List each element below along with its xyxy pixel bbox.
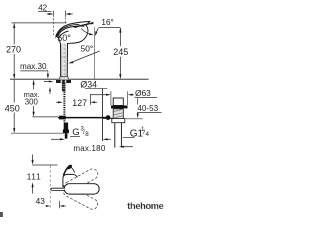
dimension 43 (49, 166, 51, 188)
hose connection level line (450 datum) (11, 132, 64, 134)
G 3/8 connector nut (64, 123, 68, 130)
spout (top view, thin tab) (51, 188, 65, 190)
lever swing diagonal (70, 51, 100, 63)
lever (solid, top view) (64, 184, 99, 194)
svg-text:43: 43 (36, 196, 46, 206)
Ø63 dimension arrows (91, 94, 107, 96)
svg-text:300: 300 (25, 98, 39, 107)
svg-text:Ø63: Ø63 (135, 88, 151, 98)
dimension 245 (119, 28, 121, 46)
pivot ball (106, 115, 111, 120)
hose linkage level line (32, 116, 58, 118)
small arrow at deck bottom (49, 91, 51, 95)
faucet column (61, 44, 67, 80)
flexible hose (dotted) (63, 92, 65, 123)
dimension 127 (56, 101, 59, 103)
svg-text:127: 127 (72, 98, 87, 108)
svg-text:max.30: max.30 (20, 62, 47, 71)
50 degree arc (left) (56, 27, 68, 37)
body (hatched) (113, 109, 123, 119)
max.180 dimension (51, 138, 61, 140)
arrow to tailpipe (124, 146, 133, 148)
svg-text:270: 270 (6, 44, 21, 54)
head right side down to column (68, 22, 90, 44)
svg-text:16°: 16° (101, 18, 113, 27)
corner mark (0, 212, 3, 217)
extension dashes to spout (53, 18, 55, 35)
lever handle (side view) (74, 23, 93, 29)
mounting shank under deck (56, 80, 71, 83)
max.300 dimension (33, 80, 35, 85)
faucet spout outline (56, 22, 90, 44)
svg-text:111: 111 (27, 171, 42, 181)
dashed extension at x=65.4 (64, 18, 66, 23)
tailpipe (114, 123, 116, 148)
svg-text:max.180: max.180 (73, 144, 105, 153)
pop-up rod (102, 89, 104, 141)
dimension 111 upper arrow (32, 155, 34, 161)
svg-text:Ø34: Ø34 (80, 79, 97, 89)
svg-text:8: 8 (85, 131, 89, 138)
svg-text:50°: 50° (57, 33, 71, 43)
svg-text:50°: 50° (81, 43, 94, 53)
counter deck line (10, 78, 149, 80)
swing arcs: dashed lever positions (62, 167, 100, 211)
svg-text:4: 4 (146, 131, 150, 138)
svg-text:450: 450 (5, 103, 20, 113)
svg-text:thehome: thehome (127, 201, 163, 211)
body (top view) (63, 174, 77, 187)
lever neck seen from top (dark flag) (63, 167, 67, 175)
vertical reference line from lever tip (93, 27, 95, 79)
pop-up linkage bar (58, 117, 106, 119)
locknut (112, 118, 125, 122)
50 degree arc at head (81, 29, 92, 35)
top reference line (spout height) (12, 22, 67, 24)
flange (111, 106, 128, 109)
svg-text:245: 245 (113, 47, 128, 57)
svg-text:40-53: 40-53 (137, 104, 158, 113)
dimension 270/450 vertical line (13, 23, 15, 131)
pop-up waste: top cylinder (113, 98, 123, 106)
